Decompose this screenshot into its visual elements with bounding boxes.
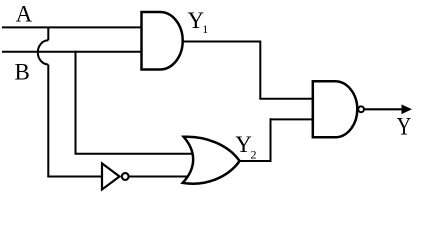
not-gate U2 bubble (122, 173, 129, 180)
svg-text:2: 2 (251, 148, 257, 162)
svg-text:A: A (16, 1, 33, 26)
wire: NAND upper input horizontal (259, 98, 314, 100)
wire: input B horizontal (2, 51, 143, 53)
wire: NOT gate output to OR gate lower input (129, 176, 205, 178)
wire: NAND lower input horizontal (270, 118, 315, 120)
nand-gate U4 body (313, 81, 358, 137)
or-gate U3 (Y2) (183, 137, 240, 184)
wire: A branch vertical upper segment (x=48.3) (47, 27, 49, 41)
wire hop: crossover arc of A branch over B line (38, 40, 49, 64)
wire: output Y from NAND bubble (365, 108, 404, 110)
wire: Y1 from AND output (181, 41, 260, 43)
svg-text:B: B (15, 59, 30, 84)
wire: OR gate output to riser (238, 160, 272, 162)
wire: A branch horizontal into NOT gate input (47, 176, 103, 178)
wire: Y1 vertical drop (259, 41, 261, 99)
svg-text:1: 1 (202, 22, 208, 36)
wire: A branch vertical lower segment down to NOT gate row (47, 65, 49, 177)
nand-gate U4 bubble (358, 106, 364, 112)
wire: B branch horizontal to OR gate upper input (75, 153, 199, 155)
wire: input A horizontal (2, 26, 143, 28)
and-gate U1 (Y1 = A.B) (142, 12, 183, 70)
not-gate U2 triangle (102, 163, 120, 189)
svg-text:Y: Y (397, 112, 411, 140)
wire: B branch vertical (x=75.5) (75, 51, 77, 154)
arrowhead on output Y (402, 105, 411, 113)
wire: Y2 riser vertical (270, 118, 272, 162)
